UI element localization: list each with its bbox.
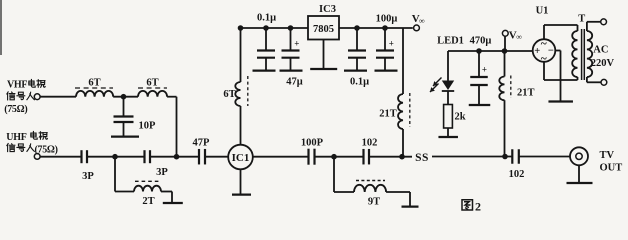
svg-text:TV: TV <box>600 150 615 161</box>
svg-text:6T: 6T <box>88 78 100 89</box>
svg-text:IC3: IC3 <box>319 4 336 15</box>
svg-text:102: 102 <box>509 169 525 180</box>
svg-text:~: ~ <box>541 38 547 50</box>
svg-text:100P: 100P <box>301 138 324 149</box>
svg-text:2T: 2T <box>142 196 154 207</box>
svg-text:2k: 2k <box>455 112 466 123</box>
svg-text:AC: AC <box>593 44 608 55</box>
svg-text:LED1: LED1 <box>437 36 464 47</box>
svg-text:47P: 47P <box>193 138 211 149</box>
svg-text:470μ: 470μ <box>470 36 492 47</box>
svg-text:3P: 3P <box>82 171 94 182</box>
svg-text:OUT: OUT <box>600 163 623 174</box>
svg-text:220V: 220V <box>591 58 615 69</box>
svg-text:−: − <box>548 46 554 57</box>
svg-text:0.1μ: 0.1μ <box>350 77 369 88</box>
svg-text:U1: U1 <box>536 5 549 16</box>
svg-text:47μ: 47μ <box>286 77 303 88</box>
svg-text:10P: 10P <box>139 121 157 132</box>
svg-text:VHF: VHF <box>7 80 27 91</box>
svg-text:(75Ω): (75Ω) <box>4 104 27 115</box>
svg-text:IC1: IC1 <box>232 152 250 164</box>
svg-text:+: + <box>482 65 487 75</box>
svg-text:102: 102 <box>362 138 378 149</box>
svg-text:6T: 6T <box>146 78 158 89</box>
svg-text:+: + <box>534 46 540 57</box>
svg-text:0.1μ: 0.1μ <box>257 13 276 24</box>
svg-text:9T: 9T <box>368 197 380 208</box>
svg-text:3P: 3P <box>156 167 168 178</box>
svg-text:+: + <box>389 39 394 49</box>
svg-text:∞: ∞ <box>516 33 522 42</box>
svg-text:UHF: UHF <box>6 132 26 143</box>
svg-text:SS: SS <box>415 152 429 164</box>
svg-text:∞: ∞ <box>419 16 425 25</box>
svg-text:21T: 21T <box>379 109 397 120</box>
svg-text:100μ: 100μ <box>376 14 398 25</box>
svg-text:2: 2 <box>475 200 481 214</box>
svg-text:T: T <box>578 13 585 24</box>
svg-text:(75Ω): (75Ω) <box>35 144 58 155</box>
svg-text:6T: 6T <box>223 89 235 100</box>
svg-text:7805: 7805 <box>313 24 334 35</box>
svg-text:+: + <box>294 39 299 49</box>
svg-text:21T: 21T <box>517 88 535 99</box>
